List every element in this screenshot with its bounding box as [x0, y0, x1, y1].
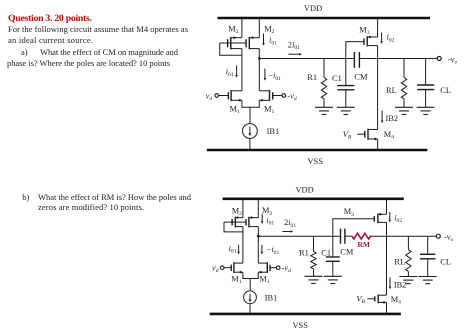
svg-text:i02: i02	[394, 213, 402, 224]
transistor M2 right bottom (PMOS)	[246, 198, 258, 228]
diode-connection loop wire M2 left	[220, 43, 242, 55]
current source IB1	[243, 124, 258, 139]
svg-text:IB1: IB1	[265, 294, 278, 303]
resistor RL	[401, 59, 406, 108]
svg-text:C1: C1	[332, 74, 342, 83]
transistor M1 left bottom (NMOS)	[224, 262, 243, 273]
svg-text:IB1: IB1	[267, 127, 280, 136]
transistor M3 (PMOS)	[364, 17, 378, 47]
M3 label	[359, 26, 369, 37]
output terminal circle	[437, 57, 441, 61]
ground at RL	[395, 107, 413, 114]
svg-text:C1: C1	[321, 249, 331, 258]
wire M2 left drain down to M1 left drain bottom	[242, 227, 244, 264]
svg-text:M1: M1	[264, 104, 274, 115]
svg-text:M3: M3	[359, 26, 369, 37]
svg-text:R1: R1	[299, 249, 309, 258]
resistor RM (series, red)	[352, 233, 370, 239]
M1 right label bottom	[259, 275, 269, 286]
ground at RL bottom	[399, 277, 417, 284]
svg-text:What the effect of RM is? How: What the effect of RM is? How the poles …	[38, 192, 192, 202]
M2 right label bottom	[262, 206, 272, 217]
input terminal vd left	[206, 91, 219, 102]
svg-text:Question 3. 20 points.: Question 3. 20 points.	[8, 13, 93, 24]
transistor M4 (NMOS)	[357, 129, 377, 150]
svg-text:RM: RM	[358, 240, 370, 249]
wire node down to M1 right drain	[258, 59, 260, 91]
M3 label bottom	[344, 207, 354, 218]
svg-text:IB2: IB2	[386, 114, 399, 123]
svg-text:i01: i01	[226, 67, 234, 78]
wire M1 right source to tail node	[250, 100, 259, 107]
svg-text:VB: VB	[343, 130, 352, 141]
svg-text:an ideal current source.: an ideal current source.	[8, 35, 93, 45]
wire tail node down to IB1	[249, 107, 251, 123]
svg-text:VB: VB	[356, 295, 365, 306]
ground at R1 bottom	[305, 276, 323, 283]
svg-text:-vd: -vd	[282, 264, 292, 275]
output label -vo	[448, 55, 458, 66]
current label 2i01 with arrow	[288, 40, 302, 55]
RL label	[386, 86, 397, 95]
M1 left label bottom	[231, 275, 241, 286]
wire M1 right source to tail node bottom	[250, 272, 258, 278]
svg-text:M2: M2	[228, 25, 238, 36]
svg-text:RL: RL	[386, 86, 397, 95]
C1 label bottom	[321, 249, 331, 258]
output terminal circle bottom	[436, 234, 440, 238]
VB label bottom	[356, 295, 365, 306]
svg-text:2i01: 2i01	[288, 40, 300, 51]
wire IB1 to VSS rail	[249, 138, 251, 150]
current arrow IB2	[381, 111, 384, 124]
svg-text:2i01: 2i01	[284, 218, 296, 229]
ground at C1 bottom	[324, 276, 342, 283]
M2 right label	[264, 25, 274, 36]
wire IB1 to VSS rail bottom	[249, 304, 251, 314]
wire node A up to M3 gate bottom	[333, 219, 375, 236]
svg-text:For the following circuit assu: For the following circuit assume that M4…	[8, 24, 188, 34]
wire CM to RM bottom	[345, 235, 352, 237]
IB2 label bottom	[394, 280, 407, 289]
wire node down to M1 right drain bottom	[257, 236, 259, 263]
svg-text:zeros are modified? 10 points.: zeros are modified? 10 points.	[38, 202, 144, 212]
diode-connection loop wire M2 left bottom	[224, 222, 243, 232]
capacitor C1	[337, 59, 354, 108]
svg-text:i01: i01	[229, 244, 237, 255]
question heading	[8, 13, 93, 24]
question body text part a	[7, 24, 188, 68]
svg-text:a): a)	[21, 47, 28, 57]
svg-text:-vo: -vo	[444, 233, 454, 244]
VDD rail top	[217, 17, 430, 20]
shared gate wire of M2 pair bottom	[224, 221, 246, 223]
M2 left label bottom	[232, 207, 242, 218]
VSS rail top	[207, 149, 428, 152]
wire M3 drain down through output node to M4 bottom	[386, 222, 388, 295]
output wire (node B)	[359, 58, 437, 60]
transistor M1 left (NMOS)	[219, 90, 242, 102]
ground at C1	[337, 107, 355, 114]
svg-text:vd: vd	[206, 91, 213, 102]
RL label bottom	[394, 257, 405, 266]
svg-text:M1: M1	[231, 275, 241, 286]
svg-text:VDD: VDD	[296, 186, 314, 195]
wire node A up to M3 gate	[346, 42, 364, 59]
node junction dot first-stage bottom	[257, 235, 260, 238]
question body text part b	[22, 192, 191, 212]
svg-text:M2: M2	[264, 25, 274, 36]
VB label	[343, 130, 352, 141]
svg-text:−i01: −i01	[267, 245, 280, 256]
svg-text:CL: CL	[440, 257, 451, 266]
current arrow IB2 bottom	[389, 278, 392, 290]
current arrow i01 beside left branch bottom	[229, 244, 240, 255]
M1 left label	[230, 104, 240, 115]
VSS label top	[308, 157, 324, 166]
svg-text:M4: M4	[384, 130, 394, 141]
capacitor CL	[417, 59, 434, 108]
CL label	[440, 86, 451, 95]
ground at CL	[417, 107, 435, 114]
output wire bottom (node B)	[370, 235, 437, 237]
resistor R1 bottom	[311, 236, 316, 276]
wire M2 right drain to first-stage node bottom	[257, 227, 259, 237]
IB1 label	[267, 127, 280, 136]
svg-text:M1: M1	[259, 275, 269, 286]
CM label bottom	[340, 248, 354, 257]
CL label bottom	[440, 257, 451, 266]
svg-text:M2: M2	[232, 207, 242, 218]
svg-text:b): b)	[22, 192, 29, 202]
current arrow i01 at M2 right bottom	[261, 214, 275, 227]
svg-text:RL: RL	[394, 257, 405, 266]
M2 left label	[228, 25, 238, 36]
VSS label bottom	[293, 321, 309, 330]
transistor M2 left (diode-connected PMOS)	[228, 17, 242, 50]
svg-text:i01: i01	[269, 36, 277, 47]
first-stage output wire bottom (node A)	[258, 235, 340, 237]
svg-text:phase is? Where the poles are: phase is? Where the poles are located? 1…	[7, 58, 170, 68]
svg-text:-vo: -vo	[448, 55, 458, 66]
M4 label bottom	[391, 295, 401, 306]
svg-text:VSS: VSS	[293, 321, 309, 330]
svg-text:CM: CM	[354, 73, 368, 82]
svg-text:M4: M4	[391, 295, 401, 306]
first-stage output wire (node A)	[259, 58, 354, 60]
capacitor CM (series, Miller)	[354, 52, 359, 68]
svg-text:CL: CL	[440, 86, 451, 95]
svg-text:VSS: VSS	[308, 157, 324, 166]
svg-text:-vd: -vd	[287, 91, 297, 102]
output label -vo bottom	[444, 233, 454, 244]
R1 label bottom	[299, 249, 309, 258]
VDD label top	[304, 4, 322, 13]
IB2 label	[386, 114, 399, 123]
capacitor CM bottom (series, Miller)	[341, 229, 345, 244]
capacitor C1 bottom	[326, 236, 340, 276]
C1 label	[332, 74, 342, 83]
current arrow i01 beside left branch	[226, 66, 238, 78]
svg-text:CM: CM	[340, 248, 354, 257]
input terminal -vd right bottom	[276, 264, 291, 275]
transistor M3 bottom (PMOS)	[374, 198, 386, 224]
svg-text:What the effect of CM on magni: What the effect of CM on magnitude and	[40, 47, 179, 57]
IB1 label bottom	[265, 294, 278, 303]
transistor M1 right (NMOS mirrored)	[259, 90, 282, 102]
wire M2 right drain to first-stage node	[258, 49, 260, 59]
CM label	[354, 73, 368, 82]
ground at CL bottom	[419, 277, 437, 284]
svg-text:i02: i02	[387, 33, 395, 44]
current source IB1 bottom	[244, 291, 257, 304]
svg-text:IB2: IB2	[394, 280, 407, 289]
svg-text:M1: M1	[230, 104, 240, 115]
svg-text:M3: M3	[344, 207, 354, 218]
transistor M2 right (PMOS)	[246, 17, 259, 50]
current arrow i02 at M3 bottom	[389, 212, 403, 224]
VDD rail bottom	[223, 198, 404, 201]
wire M3 drain down through output node to M4	[377, 46, 379, 130]
input terminal vd left bottom	[212, 264, 224, 275]
wire M2 left drain down to M1 left drain	[241, 49, 243, 91]
current arrow -i01 beside right branch bottom	[261, 245, 280, 256]
VDD label bottom	[296, 186, 314, 195]
wire M1 left source to tail node bottom	[243, 272, 250, 278]
ground at R1	[315, 107, 333, 114]
M1 right label	[264, 104, 274, 115]
VSS rail bottom	[210, 313, 401, 316]
wire M1 left source to tail node	[242, 100, 250, 107]
wire tail node down to IB1 bottom	[249, 279, 251, 292]
current label 2i01 with arrow bottom	[282, 218, 296, 233]
capacitor CL bottom	[420, 236, 435, 276]
current arrow -i01 beside right branch	[264, 69, 282, 82]
transistor M4 bottom (NMOS)	[367, 294, 386, 314]
resistor RL bottom	[406, 236, 411, 276]
svg-text:i01: i01	[266, 216, 274, 227]
svg-text:−i01: −i01	[268, 71, 281, 82]
input terminal -vd right	[282, 91, 297, 102]
resistor R1	[321, 59, 326, 108]
shared gate wire of M2 pair	[220, 42, 246, 44]
svg-text:R1: R1	[307, 73, 317, 82]
node junction dot first-stage	[258, 57, 261, 60]
RM label (red)	[358, 240, 370, 249]
current arrow i02 at M3	[380, 33, 394, 44]
svg-text:VDD: VDD	[304, 4, 322, 13]
transistor M1 right bottom (NMOS mirrored)	[258, 262, 276, 273]
transistor M2 left bottom (diode-connected PMOS)	[232, 198, 243, 228]
R1 label	[307, 73, 317, 82]
current arrow i01 at M2 right	[262, 34, 277, 47]
M4 label	[384, 130, 394, 141]
svg-text:vd: vd	[212, 264, 219, 275]
